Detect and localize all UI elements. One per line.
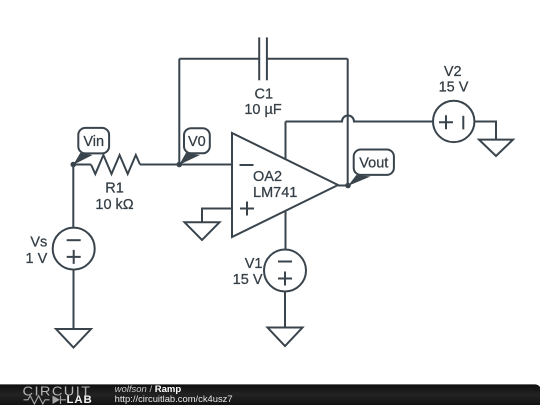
voltage source Vs: [26, 228, 95, 270]
svg-text:10 kΩ: 10 kΩ: [95, 197, 133, 213]
svg-text:C1: C1: [255, 86, 274, 102]
svg-text:15 V: 15 V: [439, 79, 469, 95]
wire op-amp bottom power pin: [285, 211, 287, 250]
ground at op-amp plus input: [185, 222, 220, 240]
wire feedback top right: [267, 58, 348, 60]
svg-text:V0: V0: [188, 134, 206, 150]
voltage source V1: [233, 250, 306, 292]
svg-text:LM741: LM741: [253, 185, 297, 201]
wire input row right segment: [140, 164, 232, 166]
svg-text:Vs: Vs: [30, 234, 47, 250]
svg-text:10 µF: 10 µF: [244, 102, 282, 118]
wire op-amp top power pin: [285, 122, 287, 161]
node junction V0: [177, 162, 183, 168]
logo squiggle resistor and diode: [24, 396, 67, 404]
voltage source V2: [433, 64, 474, 142]
ground for V2: [479, 140, 513, 156]
op-amp OA2: [232, 133, 338, 237]
resistor R1: [91, 155, 140, 213]
ground for Vs: [56, 329, 91, 348]
wire feedback right vertical: [347, 59, 349, 186]
svg-text:Vout: Vout: [359, 156, 388, 172]
svg-text:1 V: 1 V: [26, 251, 48, 267]
svg-text:Vin: Vin: [83, 134, 104, 150]
svg-text:15 V: 15 V: [233, 272, 263, 288]
capacitor C1: [244, 37, 282, 117]
node flag V0: [179, 128, 210, 165]
wire V+ rail to V2 with hop: [286, 116, 434, 122]
svg-text:V1: V1: [245, 256, 263, 272]
wire plus input to ground: [202, 209, 232, 223]
svg-text:R1: R1: [105, 181, 124, 197]
svg-text:http://circuitlab.com/ck4usz7: http://circuitlab.com/ck4usz7: [115, 394, 233, 405]
wire Vs to ground: [73, 270, 75, 329]
node junction Vout: [345, 183, 351, 189]
ground for V1: [268, 328, 303, 347]
node junction at Vs top: [71, 162, 77, 168]
wire feedback top left: [179, 58, 259, 60]
node flag Vout: [348, 150, 394, 186]
wire V2 to ground: [474, 122, 496, 140]
svg-text:LAB: LAB: [67, 394, 93, 405]
wire Vs to input node: [72, 165, 74, 228]
node flag Vin: [73, 128, 109, 165]
svg-text:OA2: OA2: [253, 169, 282, 185]
wire V1 to ground: [284, 292, 286, 328]
wire op-amp output stub: [338, 185, 348, 187]
svg-text:V2: V2: [444, 64, 462, 80]
wire feedback left vertical: [178, 59, 180, 165]
wire input row left segment: [73, 164, 91, 166]
